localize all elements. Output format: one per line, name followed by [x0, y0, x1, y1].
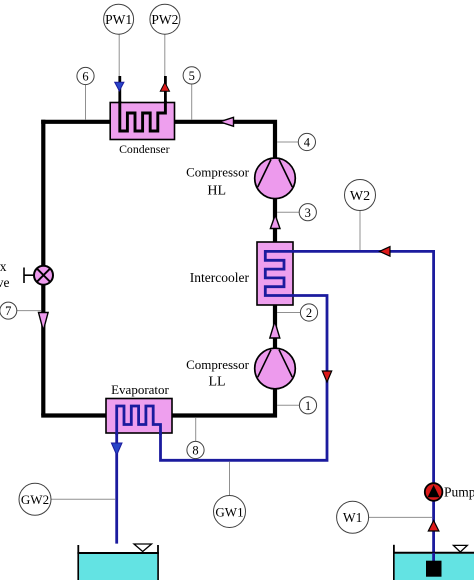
svg-text:Intercooler: Intercooler [190, 270, 250, 285]
flow arrow: blue down on evaporator outlet [111, 443, 122, 455]
evaporator coil (blue) [117, 406, 161, 435]
svg-text:PW2: PW2 [151, 12, 178, 27]
right tank water level symbol [453, 545, 467, 552]
instrument PW1 [104, 4, 134, 34]
leader line node 3 [277, 211, 300, 213]
node 1 [299, 397, 316, 414]
leader line PW2 [164, 34, 166, 76]
wire: blue evaporator outlet to left tank [115, 424, 118, 544]
svg-text:Condenser: Condenser [119, 142, 170, 156]
instrument GW1 [214, 496, 246, 528]
left tank water level symbol [134, 544, 152, 552]
svg-text:5: 5 [189, 69, 195, 83]
svg-text:7: 7 [5, 304, 11, 318]
label expansion valve (clipped at left edge) [0, 259, 10, 290]
node 4 [298, 133, 315, 150]
heat exchanger: condenser box [110, 103, 174, 140]
wire: compressor HL discharge to condenser [172, 122, 275, 159]
instrument W2 [345, 180, 376, 211]
leader line node 6 [85, 85, 87, 120]
leader line GW1 [229, 462, 231, 496]
instrument W1 [337, 501, 369, 533]
svg-text:1: 1 [305, 399, 311, 413]
flow arrow: violet up below intercooler [270, 322, 280, 339]
svg-text:8: 8 [192, 444, 198, 458]
leader line W1 [369, 516, 433, 518]
node 8 [187, 441, 204, 458]
flow arrow: red down on chilled water line [322, 371, 331, 382]
flow arrow: violet up above intercooler [270, 215, 280, 229]
wire: intercooler to compressor HL suction [273, 196, 277, 244]
heat exchanger: intercooler box [257, 242, 293, 305]
leader line W2 [359, 210, 361, 250]
svg-text:GW1: GW1 [215, 504, 243, 519]
wire: left liquid line vertical [41, 120, 45, 416]
svg-text:3: 3 [305, 206, 311, 220]
svg-text:Ex: Ex [0, 259, 7, 274]
flow arrow: red up below pump [428, 521, 439, 532]
compressor HL [255, 158, 296, 199]
label Compressor LL [186, 357, 250, 390]
wire: blue suction pipe inside right tank [432, 553, 435, 562]
instrument PW2 [150, 4, 180, 34]
node 3 [299, 204, 316, 221]
svg-text:Evaporator: Evaporator [111, 382, 169, 397]
flow arrow: violet down on left liquid line [39, 313, 49, 331]
left tank [77, 545, 158, 580]
leader line node 8 [195, 418, 197, 442]
right tank [393, 545, 474, 580]
svg-text:valve: valve [0, 275, 10, 290]
condenser PW outlet tube [164, 76, 167, 104]
leader line node 4 [277, 141, 299, 143]
instrument GW2 [19, 483, 51, 515]
condenser coil [120, 101, 166, 131]
wire: blue intercooler outlet down to evaporator return [161, 296, 328, 461]
node 6 [77, 67, 94, 84]
flow arrow: blue down condenser water inlet [115, 82, 124, 91]
svg-text:HL: HL [207, 184, 226, 199]
label Compressor HL [186, 164, 250, 198]
heat exchanger: evaporator box [106, 399, 172, 434]
leader line node 2 [277, 312, 301, 314]
flow arrow: red left on intercooler inlet line [380, 247, 391, 257]
leader line node 1 [277, 404, 300, 406]
svg-text:W2: W2 [350, 189, 370, 204]
svg-text:4: 4 [304, 136, 311, 150]
node 2 [300, 304, 317, 321]
svg-text:Pump: Pump [444, 485, 474, 500]
suction foot (black square) [426, 561, 442, 577]
leader line node 7 [17, 310, 42, 312]
flow arrow: red up condenser water outlet [160, 82, 169, 91]
wire: bottom horizontal into evaporator [41, 413, 108, 417]
svg-text:GW2: GW2 [21, 492, 49, 507]
pump P1 [425, 483, 443, 501]
svg-text:Compressor: Compressor [186, 357, 250, 372]
node 7 [0, 302, 17, 319]
svg-text:LL: LL [208, 375, 225, 390]
node 5 [183, 67, 200, 84]
wire: condenser outlet left horizontal [41, 120, 172, 124]
svg-text:PW1: PW1 [105, 12, 132, 27]
svg-text:W1: W1 [343, 510, 363, 525]
intercooler coil (blue) [265, 251, 294, 295]
expansion valve [24, 266, 53, 285]
wire: evaporator outlet to compressor LL suction [170, 386, 275, 416]
wire: blue intercooler inlet line from pump riser [265, 251, 433, 576]
leader line GW2 [51, 498, 115, 500]
wire: compressor LL discharge to intercooler [273, 303, 277, 349]
svg-text:Compressor: Compressor [186, 164, 250, 179]
leader line node 5 [191, 84, 193, 120]
leader line PW1 [118, 34, 120, 76]
condenser PW inlet tube [118, 76, 121, 104]
flow arrow: violet left on discharge line [220, 117, 234, 126]
svg-text:6: 6 [82, 70, 88, 84]
compressor LL [255, 348, 296, 389]
svg-text:2: 2 [306, 306, 312, 320]
